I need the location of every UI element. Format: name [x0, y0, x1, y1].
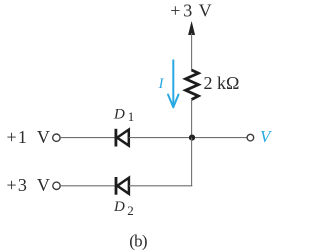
svg-text:+1 V: +1 V [7, 127, 52, 147]
wire supply to resistor [191, 33, 193, 71]
wire corner up to node [191, 138, 193, 187]
svg-text:2 kΩ: 2 kΩ [204, 73, 240, 93]
output terminal [247, 134, 254, 141]
supply arrow up [188, 21, 195, 35]
svg-text:V: V [199, 1, 212, 21]
current arrow I (cyan) [172, 60, 174, 108]
resistor 2 kΩ [186, 70, 199, 100]
svg-text:D: D [113, 107, 125, 123]
terminal +3 V [53, 182, 60, 189]
svg-text:1: 1 [128, 109, 135, 124]
wire terminal to D1 [60, 137, 114, 139]
diode D2 [116, 177, 129, 195]
svg-text:2: 2 [127, 203, 134, 218]
diode D1 [116, 129, 129, 147]
wire resistor to node [191, 100, 193, 138]
wire terminal to D2 [60, 185, 114, 187]
svg-text:+3 V: +3 V [7, 175, 52, 195]
svg-text:I: I [158, 76, 165, 92]
svg-text:D: D [113, 199, 125, 215]
terminal +1 V [53, 134, 60, 141]
svg-text:+: + [170, 1, 180, 21]
wire D2 to corner [129, 185, 192, 187]
svg-text:(b): (b) [129, 232, 147, 251]
node junction [189, 135, 195, 141]
svg-text:3: 3 [183, 1, 192, 21]
wire D1 to node and to output [129, 137, 247, 139]
